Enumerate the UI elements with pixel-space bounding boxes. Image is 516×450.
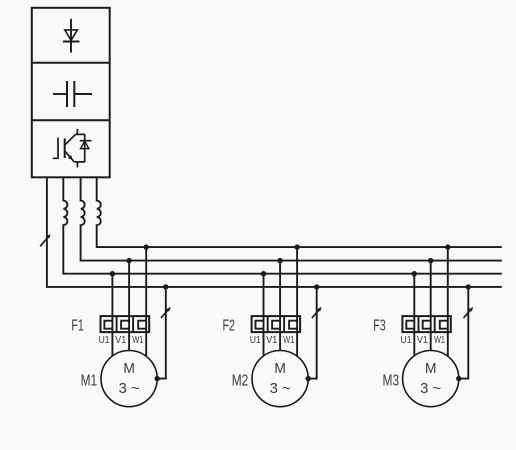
svg-text:V1: V1 <box>417 335 428 346</box>
svg-text:V1: V1 <box>115 335 126 346</box>
svg-text:W1: W1 <box>283 335 294 346</box>
svg-text:W1: W1 <box>132 335 143 346</box>
svg-text:3 ~: 3 ~ <box>420 381 441 397</box>
svg-text:V1: V1 <box>266 335 277 346</box>
svg-text:F1: F1 <box>71 318 84 335</box>
svg-text:F2: F2 <box>222 318 235 335</box>
svg-text:U1: U1 <box>250 335 261 346</box>
svg-text:M2: M2 <box>232 372 249 389</box>
svg-text:U1: U1 <box>99 335 110 346</box>
svg-text:F3: F3 <box>373 318 386 335</box>
svg-text:M3: M3 <box>383 372 400 389</box>
svg-text:U1: U1 <box>401 335 412 346</box>
svg-text:3 ~: 3 ~ <box>119 381 140 397</box>
svg-text:M: M <box>425 361 437 377</box>
svg-text:M1: M1 <box>81 372 98 389</box>
svg-text:W1: W1 <box>434 335 445 346</box>
svg-text:3 ~: 3 ~ <box>270 381 291 397</box>
svg-text:M: M <box>123 361 135 377</box>
svg-text:M: M <box>274 361 286 377</box>
